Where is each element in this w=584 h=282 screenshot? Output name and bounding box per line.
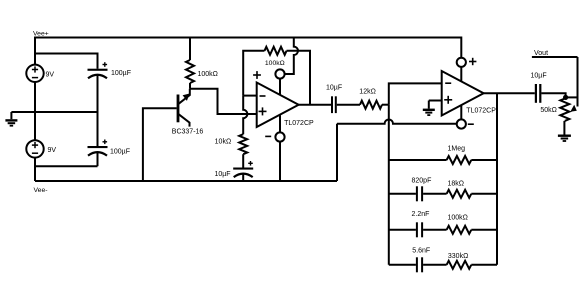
svg-text:100kΩ: 100kΩ: [265, 60, 285, 67]
svg-text:10µF: 10µF: [214, 171, 230, 178]
svg-text:2.2nF: 2.2nF: [412, 211, 430, 218]
svg-text:1Meg: 1Meg: [448, 146, 466, 153]
svg-text:BC337-16: BC337-16: [172, 129, 204, 136]
svg-text:820pF: 820pF: [412, 177, 432, 184]
svg-text:Vout: Vout: [534, 50, 548, 57]
svg-text:18kΩ: 18kΩ: [448, 180, 465, 187]
svg-text:10kΩ: 10kΩ: [215, 139, 232, 146]
svg-text:10µF: 10µF: [326, 85, 342, 92]
svg-text:100µF: 100µF: [111, 70, 131, 77]
svg-text:50kΩ: 50kΩ: [540, 107, 557, 114]
svg-text:100kΩ: 100kΩ: [198, 71, 218, 78]
svg-text:10µF: 10µF: [531, 72, 547, 79]
svg-text:TL072CP: TL072CP: [284, 120, 314, 127]
svg-text:9V: 9V: [46, 72, 55, 79]
svg-text:Vee-: Vee-: [34, 187, 48, 194]
svg-text:12kΩ: 12kΩ: [359, 89, 376, 96]
svg-text:5.6nF: 5.6nF: [412, 248, 430, 255]
svg-text:100µF: 100µF: [110, 149, 130, 156]
svg-text:TL072CP: TL072CP: [466, 108, 496, 115]
svg-text:9V: 9V: [48, 147, 57, 154]
svg-text:Vee+: Vee+: [33, 30, 49, 37]
svg-text:100kΩ: 100kΩ: [448, 215, 468, 222]
svg-text:330kΩ: 330kΩ: [448, 253, 468, 260]
